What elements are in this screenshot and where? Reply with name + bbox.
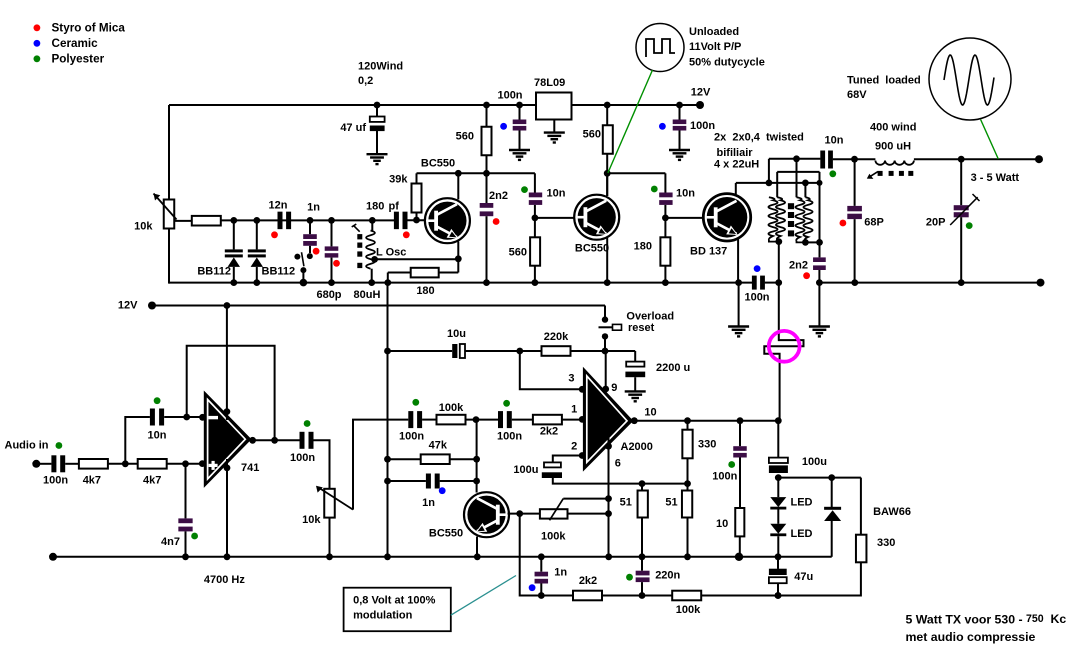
capacitor 10n RF out [820, 151, 825, 169]
wire pin2 to 100u [553, 456, 582, 463]
svg-text:Unloaded: Unloaded [689, 26, 739, 38]
ground PA [818, 283, 820, 327]
resistor 4k7 #2 [138, 459, 167, 469]
wire collector row 2 [607, 172, 665, 174]
svg-text:1n: 1n [422, 497, 435, 509]
svg-text:4700 Hz: 4700 Hz [204, 574, 245, 586]
node pot right / pin6 line [605, 510, 612, 517]
node led bottom [775, 553, 782, 560]
svg-text:100n: 100n [43, 474, 68, 486]
node emitter/tap [455, 255, 462, 262]
pin dot plus [199, 460, 206, 467]
svg-text:LED: LED [791, 528, 813, 540]
wire RF out to antenna [914, 158, 1039, 160]
terminal 12V top [696, 101, 704, 109]
node wiper/pin6 [605, 495, 612, 502]
svg-text:L Osc: L Osc [376, 246, 406, 258]
ground BD137 emitter [738, 283, 740, 327]
capacitor 100n audio in [51, 455, 56, 472]
capacitor 100u led [769, 458, 788, 463]
magenta highlight circle [769, 331, 800, 362]
pin 1 [579, 416, 586, 423]
svg-text:47 uf: 47 uf [340, 122, 366, 134]
wire overload switch drop [604, 306, 606, 320]
wire BC550-3 collector drop [476, 420, 478, 493]
node 47u / bottom line [775, 592, 782, 599]
inductor 900uH adjustable [875, 161, 914, 165]
green callout line to BC550-2 collector [608, 70, 653, 173]
svg-text:100n: 100n [690, 120, 715, 132]
svg-text:10u: 10u [447, 328, 466, 340]
node 51-1 ground [639, 553, 646, 560]
svg-text:680p: 680p [316, 289, 341, 301]
node 741 supply [224, 302, 231, 309]
node 47u bottom [775, 592, 782, 599]
node filter [122, 460, 129, 467]
wire xfmr bottom link [805, 241, 819, 243]
svg-text:100u: 100u [802, 456, 827, 468]
svg-text:10k: 10k [302, 514, 321, 526]
regulator 78L09 [536, 93, 572, 120]
svg-text:100u: 100u [513, 464, 538, 476]
svg-text:BC550: BC550 [429, 528, 463, 540]
svg-text:1: 1 [571, 404, 577, 416]
svg-text:2200 u: 2200 u [656, 362, 690, 374]
svg-text:4k7: 4k7 [143, 474, 161, 486]
wire pin3 branch [520, 351, 582, 389]
wire PA ground rail right [819, 282, 1040, 284]
node xfmr bottom bypass [816, 239, 823, 246]
transistor Q4 BC550 agc [464, 492, 509, 537]
wire osc varactor row [221, 219, 395, 221]
wire 180 to ground rail [388, 272, 411, 274]
capacitor 68P [854, 159, 856, 206]
potentiometer 100k agc [540, 509, 568, 518]
svg-text:2: 2 [571, 440, 577, 452]
capacitor 10n #1 [534, 173, 536, 192]
node pin6 ground [605, 553, 612, 560]
svg-text:Tuned loaded: Tuned loaded [847, 74, 921, 86]
svg-text:100n: 100n [712, 471, 737, 483]
svg-text:100n: 100n [290, 452, 315, 464]
node top rail / 47uf [374, 102, 381, 109]
svg-text:10n: 10n [676, 187, 695, 199]
wire pot wiper to 10k [175, 220, 193, 222]
svg-text:Ceramic: Ceramic [52, 37, 99, 50]
svg-text:50% dutycycle: 50% dutycycle [689, 56, 765, 68]
node 100n-3 top [676, 102, 683, 109]
capacitor 180pf [394, 212, 399, 230]
svg-text:Audio in: Audio in [5, 439, 49, 451]
node xfmr top [793, 155, 800, 162]
potentiometer 10k osc tuning [164, 200, 175, 229]
resistor 560 #2 [606, 105, 608, 125]
wire 100u-led drop [777, 421, 779, 458]
pin 2 [579, 452, 586, 459]
resistor 10 [735, 508, 744, 536]
node 741 output [249, 437, 256, 444]
pin 3 [579, 386, 586, 393]
svg-text:100n: 100n [497, 89, 522, 101]
node pot gnd [326, 553, 333, 560]
resistor 51 #1 [641, 484, 643, 491]
svg-text:12V: 12V [118, 300, 138, 312]
svg-text:10n: 10n [148, 429, 167, 441]
wire xfmr right winding top [796, 159, 798, 198]
svg-text:4 x 22uH: 4 x 22uH [714, 158, 759, 170]
node xfmr bottom right [802, 239, 809, 246]
capacitor 2n2 PA [819, 242, 821, 257]
node 10n-1 / 560-3 [532, 215, 539, 222]
wire top 9V/12V rail [169, 104, 700, 106]
svg-text:560: 560 [509, 246, 527, 258]
node BD137 emitter [735, 279, 742, 286]
wire xfmr crossover [776, 172, 778, 197]
node BB112-2 [253, 217, 260, 224]
wire BC550-3 emitter [476, 537, 478, 558]
wire BC550-3 base row [508, 513, 540, 515]
wire 741 V+ from 12V [226, 306, 228, 421]
terminal antenna cold [1037, 279, 1045, 287]
wire pot bottom to ground [329, 518, 331, 558]
resistor 330 out [687, 421, 689, 430]
svg-text:180: 180 [416, 285, 434, 297]
resistor 100k comp [437, 415, 466, 425]
wire BC550-2 emitter [606, 238, 608, 284]
svg-text:10n: 10n [547, 187, 566, 199]
resistor 39k [416, 213, 418, 220]
svg-text:400 wind: 400 wind [870, 121, 916, 133]
wire BC550-2 collector stub [606, 173, 608, 196]
node 680p top [328, 217, 335, 224]
node 560-1 / 2n2 [483, 170, 490, 177]
node 10u/220k/pin3 [516, 348, 523, 355]
fuse / breaker to modulator [764, 283, 803, 421]
svg-text:6: 6 [615, 457, 621, 469]
capacitor 100n 741 out [300, 432, 305, 449]
svg-text:0,2: 0,2 [358, 75, 373, 87]
node L Osc tap [371, 256, 378, 263]
pin 9 [602, 386, 609, 393]
resistor 2k2 bottom [573, 591, 602, 601]
capacitor 100u pin2 [544, 462, 561, 467]
wire BC550-1 emitter [457, 242, 459, 273]
capacitor 20P variable [960, 159, 962, 205]
wire 10n branch [125, 417, 150, 464]
svg-text:78L09: 78L09 [534, 77, 565, 89]
node 100n-out top [737, 417, 744, 424]
svg-text:39k: 39k [389, 173, 408, 185]
node xfmr A [766, 180, 773, 187]
svg-text:9: 9 [611, 382, 617, 394]
node 68P bottom [851, 279, 858, 286]
wire xfmr top link [768, 159, 770, 183]
svg-text:0,8 Volt at 100%: 0,8 Volt at 100% [353, 594, 436, 606]
svg-text:reset: reset [628, 322, 655, 334]
capacitor 10n #2 [664, 173, 666, 192]
node 100n-2 top [516, 102, 523, 109]
svg-text:100k: 100k [676, 604, 701, 616]
varactor BB112 #1 [233, 220, 235, 249]
node emitter ground [474, 553, 481, 560]
capacitor 1n bottom [540, 557, 542, 572]
legend dot red Styro of Mica [34, 24, 41, 31]
svg-text:LED: LED [791, 497, 813, 509]
svg-text:68V: 68V [847, 89, 867, 101]
wire ground drop to audio [387, 283, 389, 558]
node ground drop / 10u [384, 348, 391, 355]
node 10 ground big [735, 553, 743, 561]
svg-text:Overload: Overload [626, 311, 674, 323]
wire led node row [778, 477, 861, 479]
resistor 100k bottom [672, 591, 701, 601]
capacitor 10u electrolytic [452, 344, 457, 358]
resistor 47k [388, 458, 421, 460]
op-amp U1 741 [205, 393, 250, 485]
svg-text:1n: 1n [307, 201, 320, 213]
svg-text:met audio compressie: met audio compressie [906, 630, 1036, 644]
svg-text:120Wind: 120Wind [358, 60, 403, 72]
svg-text:3: 3 [568, 372, 574, 384]
svg-text:4n7: 4n7 [161, 536, 180, 548]
svg-text:51: 51 [665, 497, 677, 509]
svg-text:11Volt P/P: 11Volt P/P [689, 41, 741, 53]
wire 741 V- to ground [224, 465, 231, 472]
resistor 180 #2 [664, 218, 666, 237]
switch below 1n [309, 246, 311, 253]
svg-text:BC550: BC550 [575, 242, 609, 254]
node xfmr B [802, 180, 809, 187]
wire wiper to compressor [353, 420, 408, 510]
transformer T1 bifilar 4x22uH [768, 197, 777, 240]
svg-text:1n: 1n [554, 567, 567, 579]
svg-text:741: 741 [241, 462, 259, 474]
svg-text:Styro of Mica: Styro of Mica [52, 22, 126, 35]
resistor 10k [192, 216, 221, 226]
ground below 47uf [367, 153, 388, 155]
svg-text:A2000: A2000 [621, 441, 653, 453]
node BAW66 top [828, 474, 835, 481]
wire base row 2 [535, 217, 575, 219]
node BC550-1 base [413, 217, 420, 224]
capacitor 100n out [739, 421, 741, 447]
svg-text:12V: 12V [691, 86, 711, 98]
callout box 0,8 Volt [344, 588, 451, 632]
wire 741 output [250, 439, 300, 441]
svg-text:220n: 220n [655, 570, 680, 582]
node 560-2 top [604, 102, 611, 109]
wire 12V aux rail [152, 305, 605, 307]
svg-text:12n: 12n [269, 199, 288, 211]
node 68P top [851, 156, 858, 163]
wire pin9 drop [605, 351, 607, 398]
node 51-2 ground [684, 553, 691, 560]
capacitor 100n comp 2 [498, 411, 503, 428]
node 741 V- gnd [224, 553, 231, 560]
svg-text:pf: pf [389, 200, 400, 212]
capacitor 100n comp in [408, 411, 413, 428]
node 4n7 gnd [182, 553, 189, 560]
svg-text:330: 330 [698, 439, 716, 451]
svg-text:330: 330 [877, 537, 895, 549]
svg-text:2n2: 2n2 [489, 190, 508, 202]
resistor 180 osc emitter [411, 268, 439, 278]
wire BD137 emitter [737, 240, 739, 284]
transistor Q3 BD137 [703, 194, 750, 241]
svg-text:5 Watt TX voor 530 - 750 Kc: 5 Watt TX voor 530 - 750 Kc [906, 612, 1067, 626]
svg-text:220k: 220k [544, 331, 569, 343]
scope icon sine wave [929, 38, 1011, 120]
node 1n top [307, 217, 314, 224]
wire xfmr bypass right [819, 172, 821, 243]
svg-text:20P: 20P [926, 217, 946, 229]
terminal antenna hot [1035, 155, 1043, 163]
wire BD137 collector [735, 183, 737, 194]
svg-text:BC550: BC550 [421, 157, 455, 169]
svg-text:10: 10 [716, 518, 728, 530]
resistor 560 #1 [486, 105, 488, 127]
svg-text:BB112: BB112 [262, 265, 296, 277]
node ground drop [384, 553, 391, 560]
svg-text:2k2: 2k2 [579, 575, 597, 587]
wire base row BD137 [665, 217, 703, 219]
wire A2000 output row [632, 420, 779, 422]
transistor Q2 BC550 [574, 195, 619, 240]
svg-text:2k2: 2k2 [540, 425, 558, 437]
wire osc ground rail [169, 282, 752, 284]
svg-text:100n: 100n [744, 292, 769, 304]
node 20P bottom [958, 279, 965, 286]
svg-text:180: 180 [634, 241, 652, 253]
svg-text:68P: 68P [864, 217, 884, 229]
svg-text:BD 137: BD 137 [690, 245, 727, 257]
svg-text:BAW66: BAW66 [873, 506, 911, 518]
node minus input [183, 414, 190, 421]
resistor 330 baw [860, 478, 862, 535]
pin 10 output [631, 417, 638, 424]
svg-text:100n: 100n [399, 430, 424, 442]
svg-text:180: 180 [366, 200, 384, 212]
op-amp U2 A2000 compressor [584, 370, 632, 470]
wire bottom feedback line [520, 514, 861, 596]
terminal 12V left [148, 302, 156, 310]
capacitor 10n feedback [150, 409, 155, 426]
legend dot green Polyester [34, 55, 41, 62]
wire to level pot [313, 440, 329, 489]
svg-text:3 - 5 Watt: 3 - 5 Watt [971, 172, 1020, 184]
pin 6 [605, 443, 612, 450]
scope icon square wave [636, 24, 684, 72]
svg-text:47k: 47k [429, 440, 448, 452]
svg-text:560: 560 [583, 129, 601, 141]
capacitor 100n decoupling A [519, 105, 521, 120]
node PA ground [816, 279, 823, 286]
green callout line to output [981, 120, 999, 160]
svg-text:Polyester: Polyester [52, 53, 105, 66]
wire 10u row [388, 350, 453, 352]
wire audio ground rail [53, 556, 832, 558]
svg-text:560: 560 [456, 130, 474, 142]
node 330 top [684, 417, 691, 424]
wire left rail drop to pot [168, 105, 170, 200]
wire 51 row [642, 483, 688, 485]
capacitor 100n series RF bypass [752, 276, 757, 290]
node led top [775, 474, 782, 481]
node 220k/reset/pin9 [602, 348, 609, 355]
wire collector row 1 [417, 172, 535, 174]
terminal audio input [32, 460, 40, 468]
resistor 4k7 #1 [79, 459, 108, 469]
svg-text:100k: 100k [541, 531, 566, 543]
diode LED 1 [777, 478, 779, 498]
wire audio in [36, 463, 51, 465]
wire base to transistor [405, 219, 425, 221]
capacitor 1n osc [309, 220, 311, 234]
capacitor 12n [278, 212, 283, 230]
svg-text:2n2: 2n2 [789, 259, 808, 271]
pin dot minus [199, 414, 206, 421]
capacitor 100n decoupling B [679, 105, 681, 120]
svg-text:100k: 100k [439, 402, 464, 414]
terminal ground left [49, 553, 57, 561]
wire pin6 drop [608, 438, 610, 558]
wire coil tap to BC550 emitter [375, 258, 459, 260]
capacitor 47u [777, 557, 779, 569]
svg-text:2x 2x0,4 twisted: 2x 2x0,4 twisted [714, 131, 804, 143]
node 10n-2 / 180-2 [662, 215, 669, 222]
svg-text:10k: 10k [134, 220, 153, 232]
resistor 560 #3 [534, 218, 536, 237]
resistor 220k [542, 346, 571, 356]
svg-text:51: 51 [620, 497, 632, 509]
svg-text:100n: 100n [497, 430, 522, 442]
transistor Q1 BC550 [425, 198, 470, 243]
diode BAW66 [831, 478, 833, 507]
svg-text:4k7: 4k7 [83, 474, 101, 486]
node L Osc top [369, 217, 376, 224]
capacitor 680p [331, 220, 333, 246]
node 330/51-2 [684, 480, 691, 487]
node fuse/output [775, 417, 782, 424]
switch overload reset [602, 316, 608, 322]
wire BC550-1 collector [457, 175, 459, 200]
svg-text:10: 10 [644, 406, 656, 418]
svg-text:80uH: 80uH [354, 289, 381, 301]
svg-text:bifiliair: bifiliair [717, 147, 754, 159]
node 20P top [958, 156, 965, 163]
node plus input [182, 460, 189, 467]
svg-text:modulation: modulation [353, 610, 413, 622]
node BC550-1 collector [455, 170, 462, 177]
potentiometer 10k level [324, 489, 335, 518]
node 51-1 top [639, 480, 646, 487]
node comp/47k [473, 416, 480, 423]
wire 741 feedback loop [187, 346, 275, 441]
node B+ feed [775, 279, 782, 286]
capacitor 2n2 osc [480, 203, 494, 208]
wire pot bottom to ground rail [168, 229, 170, 284]
varactor BB112 #2 [256, 220, 258, 249]
capacitor 47 uf electrolytic [376, 105, 378, 117]
node xfmr C [817, 180, 823, 186]
node xfmr bottom left [775, 238, 782, 245]
svg-text:BB112: BB112 [197, 265, 231, 277]
node 560-1 top [483, 102, 490, 109]
capacitor 2200 u electrolytic [626, 362, 644, 367]
capacitor 1n comp [388, 480, 426, 482]
wire 100u to 51 node [553, 478, 642, 484]
inductor L Osc 80uH [371, 220, 373, 230]
